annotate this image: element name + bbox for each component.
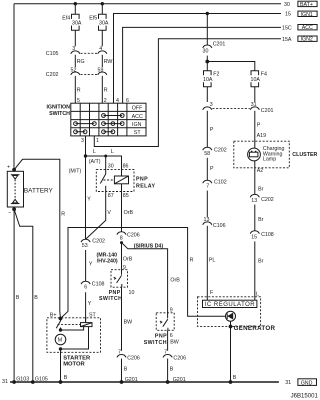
svg-text:(M/T): (M/T): [69, 168, 82, 174]
wire ST coil entry: [85, 318, 87, 323]
wire P left 2: [207, 158, 214, 181]
svg-text:IGNITION: IGNITION: [46, 105, 70, 111]
svg-text:7: 7: [206, 183, 209, 189]
svg-text:9: 9: [123, 265, 126, 271]
svg-text:OFF: OFF: [132, 106, 143, 112]
wire dashed link C202: [81, 73, 97, 75]
svg-text:30: 30: [203, 49, 209, 55]
svg-text:RG: RG: [77, 59, 85, 65]
wire Y to C108: [86, 250, 93, 281]
svg-text:C108: C108: [261, 232, 274, 238]
wire Ef4 leads: [74, 4, 76, 47]
svg-text:15A: 15A: [282, 37, 292, 43]
svg-text:15C: 15C: [282, 26, 292, 32]
PNP switch S2 (SIRIUS D4): [144, 313, 174, 346]
svg-text:R: R: [77, 87, 81, 93]
svg-text:3: 3: [81, 138, 84, 144]
svg-text:4: 4: [116, 98, 119, 104]
svg-text:Br: Br: [258, 258, 264, 264]
svg-text:6: 6: [84, 285, 87, 291]
connector C206 pin 8: [117, 232, 140, 242]
wire RW: [102, 55, 112, 67]
svg-text:53: 53: [82, 243, 88, 249]
node generator ground: [229, 380, 233, 384]
wire BW left: [122, 287, 133, 351]
svg-text:IC REGULATOR: IC REGULATOR: [205, 302, 256, 308]
svg-text:IGN: IGN: [132, 122, 142, 128]
svg-text:Ef4: Ef4: [62, 15, 70, 21]
wire R pin5: [75, 76, 80, 103]
connector C108 pin 15: [250, 231, 274, 240]
PNP relay: [96, 170, 155, 192]
wire battery positive R cable: [14, 159, 65, 318]
starter motor: [47, 313, 101, 382]
svg-text:58: 58: [204, 151, 210, 157]
terminal box IGN1: [298, 11, 317, 18]
terminal box GND: [298, 379, 317, 387]
svg-text:2: 2: [104, 98, 107, 104]
node junction BAT+/Ef4: [74, 2, 77, 5]
svg-text:/HV-240): /HV-240): [97, 259, 118, 265]
svg-text:BATTERY: BATTERY: [24, 187, 54, 194]
connector C108 pin 6: [81, 281, 105, 290]
svg-text:R: R: [190, 257, 194, 263]
terminal box BAT+: [298, 1, 317, 8]
wire R pin2: [102, 76, 107, 103]
terminal box IGN2: [298, 36, 317, 43]
switch contacts ST row: [74, 130, 115, 134]
svg-text:PL: PL: [209, 257, 216, 263]
svg-text:SWITCH: SWITCH: [49, 111, 70, 117]
node A/T junction: [84, 154, 87, 157]
generator: [198, 297, 276, 332]
label MR-140/HV-240: [97, 252, 118, 264]
svg-text:6: 6: [170, 333, 173, 339]
svg-text:C105: C105: [46, 51, 59, 57]
svg-text:B: B: [64, 375, 68, 381]
connector C105 pin 3: [46, 46, 80, 57]
wire R link battery to generator: [61, 228, 226, 319]
svg-text:C206: C206: [127, 355, 140, 361]
svg-text:J6B15001: J6B15001: [291, 394, 319, 400]
svg-text:P: P: [210, 127, 214, 133]
node junction BAT+/Ef5: [101, 2, 104, 5]
wire to C106: [206, 191, 208, 217]
wire F4 lower lead: [254, 87, 256, 102]
svg-text:C202: C202: [261, 197, 274, 203]
node OrB branch junction: [120, 241, 123, 244]
wire dashed link C201: [213, 107, 250, 109]
wire V from relay 87: [86, 192, 112, 240]
svg-text:G201: G201: [125, 377, 138, 383]
svg-text:A2: A2: [257, 168, 264, 174]
ground G201 left: [120, 377, 138, 384]
svg-text:SWITCH: SWITCH: [99, 296, 122, 302]
connector C206 pin 7 right: [163, 350, 186, 362]
svg-text:B: B: [170, 367, 174, 373]
ground G103: [12, 376, 29, 384]
node battery negative: [12, 207, 16, 211]
svg-text:BW: BW: [170, 339, 179, 345]
wire OrB to PNP switch MR-140: [122, 242, 133, 269]
svg-text:L: L: [111, 149, 114, 155]
fuse F2 10A: [203, 71, 220, 87]
wire Br to generator L: [255, 241, 264, 300]
fuse Ef4 30A: [62, 14, 82, 30]
connector C106 pin 13: [203, 217, 226, 229]
svg-text:(SIRIUS D4): (SIRIUS D4): [134, 244, 164, 250]
svg-text:ST: ST: [134, 130, 142, 136]
svg-text:P: P: [257, 123, 261, 129]
svg-text:6: 6: [126, 98, 129, 104]
svg-text:C102: C102: [214, 180, 227, 186]
connector C201 pin 3: [203, 102, 213, 110]
svg-text:Ef5: Ef5: [89, 15, 97, 21]
connector C202 pin 53: [81, 238, 105, 249]
svg-text:ACC: ACC: [302, 25, 313, 31]
svg-text:SWITCH: SWITCH: [144, 340, 167, 346]
svg-text:OrB: OrB: [170, 278, 180, 284]
fuse Ef5 30A: [89, 14, 109, 30]
ignition switch table: [71, 103, 146, 136]
svg-text:(A/T): (A/T): [89, 159, 101, 165]
wire branch to F4: [207, 62, 255, 71]
wire A2 Br: [255, 161, 264, 195]
connector C102 pin 7: [203, 180, 227, 190]
svg-text:15: 15: [285, 12, 291, 18]
svg-text:L: L: [93, 149, 96, 155]
ground bus 31: [2, 379, 291, 386]
svg-text:IGN2: IGN2: [301, 37, 313, 43]
svg-text:C202: C202: [214, 148, 227, 154]
svg-text:30: 30: [284, 2, 290, 8]
node starter ground: [59, 380, 63, 384]
connector C201 pin 30: [203, 41, 226, 54]
svg-text:Y: Y: [89, 262, 93, 268]
svg-text:Y: Y: [88, 301, 92, 307]
svg-text:(MR-140: (MR-140: [97, 252, 118, 258]
svg-text:C206: C206: [127, 232, 140, 238]
svg-text:G105: G105: [35, 376, 48, 382]
wire B generator to ground: [231, 327, 237, 383]
svg-text:−: −: [8, 210, 11, 216]
svg-text:Br: Br: [258, 217, 264, 223]
svg-text:STARTER: STARTER: [63, 355, 91, 361]
wire L (A/T) to relay: [86, 149, 122, 170]
svg-text:BAT+: BAT+: [300, 2, 313, 8]
cluster box: [234, 141, 318, 168]
svg-text:B: B: [124, 367, 128, 373]
connector C202 pin 58: [203, 147, 227, 157]
svg-text:ACC: ACC: [132, 114, 143, 120]
svg-text:V: V: [107, 210, 111, 216]
svg-text:G103: G103: [16, 376, 29, 382]
connector C105 pin 4: [98, 46, 107, 54]
svg-text:Lamp: Lamp: [263, 157, 276, 163]
wire SIRIUS D4 branch: [122, 243, 181, 313]
svg-text:F4: F4: [261, 71, 267, 77]
svg-text:C108: C108: [92, 281, 105, 287]
wire Y/ST to starter: [86, 292, 97, 322]
node battery positive: [12, 168, 16, 172]
svg-text:PNP: PNP: [136, 177, 148, 183]
connector C206 pin 7 left: [117, 350, 140, 362]
wire P right to cluster: [255, 111, 266, 148]
svg-text:GENERATOR: GENERATOR: [234, 325, 276, 332]
switch contacts ACC row: [102, 114, 125, 118]
wire OrB from relay 85: [122, 192, 134, 232]
svg-text:30A: 30A: [99, 20, 109, 26]
svg-text:30A: 30A: [72, 20, 82, 26]
svg-text:IGN1: IGN1: [301, 12, 313, 18]
wire PL to generator F: [207, 226, 215, 300]
svg-text:B: B: [16, 295, 20, 301]
wire B right: [168, 359, 174, 382]
svg-text:PNP: PNP: [155, 334, 167, 340]
wire C201 feed: [206, 14, 208, 46]
svg-text:5: 5: [77, 98, 80, 104]
svg-text:1: 1: [96, 138, 99, 144]
svg-text:PNP: PNP: [109, 290, 121, 296]
terminal box ACC: [298, 25, 317, 32]
svg-text:85: 85: [123, 193, 129, 199]
lamp charging warning: [248, 148, 261, 161]
wire Y (M/T): [86, 156, 92, 239]
svg-text:15: 15: [251, 234, 257, 240]
ground G201 right: [166, 377, 186, 384]
wire BW right: [168, 330, 179, 350]
svg-text:B: B: [34, 295, 38, 301]
svg-text:GND: GND: [301, 380, 313, 386]
svg-text:R: R: [61, 211, 65, 217]
wire IGN1 bus (15): [114, 12, 291, 104]
svg-text:C202: C202: [46, 72, 59, 78]
wire C201.30 to junction: [206, 56, 208, 62]
svg-text:B: B: [233, 375, 237, 381]
svg-text:Br: Br: [258, 186, 264, 192]
svg-text:G201: G201: [173, 377, 186, 383]
svg-text:MOTOR: MOTOR: [63, 362, 85, 368]
svg-text:BW: BW: [124, 320, 133, 326]
connector C202 pin 59: [98, 67, 107, 75]
connector C201 pin 31: [250, 102, 273, 114]
wire battery negative branch to G105: [15, 211, 33, 383]
node junction IGN1/C201: [206, 12, 209, 15]
wire dashed link C105: [81, 52, 97, 54]
svg-text:P: P: [210, 166, 214, 172]
battery: [7, 165, 54, 217]
svg-text:F2: F2: [213, 71, 219, 77]
svg-text:C206: C206: [173, 355, 186, 361]
connector C202 pin 13: [250, 194, 274, 203]
wire P left: [207, 111, 214, 148]
svg-text:C201: C201: [213, 41, 226, 47]
svg-text:31: 31: [285, 380, 291, 386]
wire battery negative to G103: [13, 209, 15, 382]
svg-text:Y: Y: [87, 196, 91, 202]
svg-text:+: +: [7, 165, 10, 171]
wire Br 2: [255, 205, 264, 231]
svg-text:A19: A19: [257, 133, 266, 139]
fuse F4 10A: [251, 71, 268, 87]
svg-text:M: M: [58, 338, 62, 344]
svg-text:CLUSTER: CLUSTER: [292, 152, 317, 158]
wire IGN2 bus (15A): [94, 37, 292, 147]
PNP switch S1 (MR-140): [99, 270, 127, 303]
svg-text:10A: 10A: [203, 77, 213, 83]
wire F2 leads: [206, 62, 208, 103]
ground G105: [31, 376, 48, 384]
svg-text:10A: 10A: [251, 77, 261, 83]
wire left frame BAT+ to battery: [13, 4, 15, 170]
svg-text:R: R: [104, 87, 108, 93]
wire RG: [75, 55, 84, 67]
wire Ef5 leads: [101, 4, 103, 47]
svg-text:8: 8: [120, 235, 123, 241]
svg-text:87: 87: [108, 193, 114, 199]
wire BAT+ bus (30): [14, 2, 290, 8]
ignition switch label: [46, 105, 70, 117]
node fuse feed junction: [205, 60, 209, 64]
wire B left: [122, 359, 128, 382]
svg-text:C106: C106: [213, 223, 226, 229]
svg-text:C201: C201: [261, 108, 274, 114]
wire pin3 to junction: [85, 136, 87, 156]
svg-text:OrB: OrB: [123, 256, 133, 262]
svg-text:30: 30: [108, 163, 114, 169]
svg-text:OrB: OrB: [124, 210, 134, 216]
switch contacts IGN row: [74, 122, 125, 126]
svg-text:C202: C202: [92, 238, 105, 244]
wire ACC bus (15C): [123, 26, 292, 104]
svg-text:86: 86: [123, 163, 129, 169]
svg-text:RW: RW: [104, 59, 113, 65]
svg-text:31: 31: [2, 379, 8, 385]
svg-text:RELAY: RELAY: [136, 183, 156, 189]
svg-text:13: 13: [251, 198, 257, 204]
svg-text:10: 10: [129, 290, 135, 296]
connector C202 pin 52: [46, 67, 80, 78]
